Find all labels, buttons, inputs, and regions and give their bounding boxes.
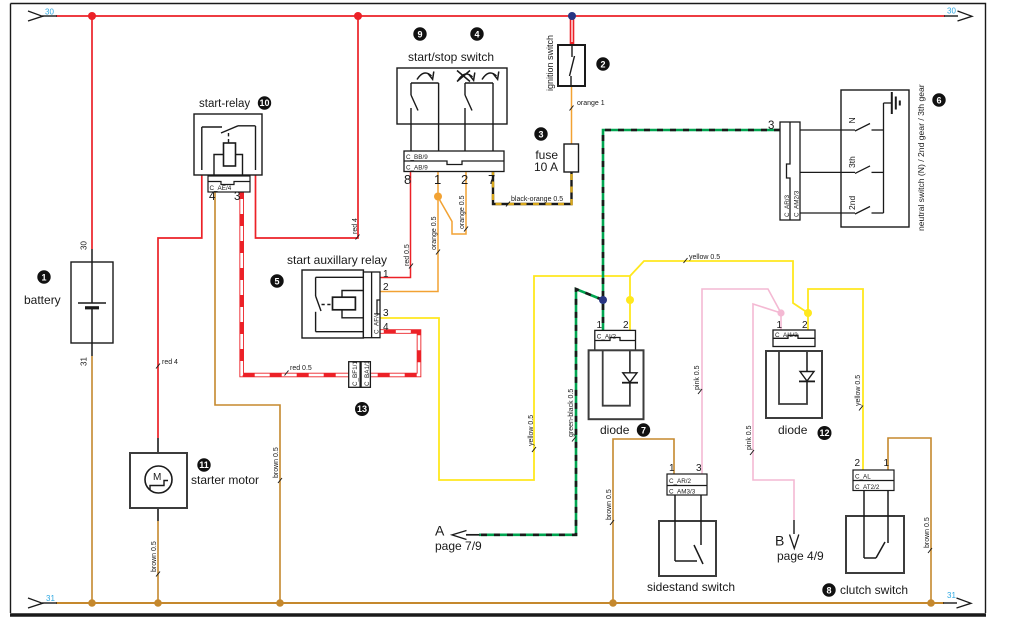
svg-text:2: 2 <box>623 320 629 331</box>
net 31 bus wire <box>42 602 957 604</box>
svg-text:C_AF/4: C_AF/4 <box>374 312 381 334</box>
svg-text:3th: 3th <box>847 156 857 168</box>
start auxillary relay 5 <box>302 270 363 338</box>
svg-text:2: 2 <box>461 172 468 187</box>
svg-text:red 4: red 4 <box>162 359 178 366</box>
svg-text:C_AR/3: C_AR/3 <box>784 194 791 217</box>
wire clutch pin1 to net31 (brown 0.5) <box>888 438 931 603</box>
svg-text:red 4: red 4 <box>352 218 359 234</box>
svg-text:13: 13 <box>357 404 367 414</box>
svg-text:1: 1 <box>777 320 783 331</box>
svg-text:brown 0.5: brown 0.5 <box>924 517 931 548</box>
wire yellow branch right <box>630 261 808 330</box>
node A page reference <box>435 523 482 553</box>
svg-text:yellow 0.5: yellow 0.5 <box>528 415 535 446</box>
wire neutral switch to diode7 pin1 (green-black 0.5) <box>603 130 780 330</box>
svg-text:1: 1 <box>41 273 46 283</box>
svg-text:yellow 0.5: yellow 0.5 <box>689 254 720 261</box>
neutral switch connector C_AR/3 C_AM2/3 <box>780 122 800 220</box>
svg-text:brown 0.5: brown 0.5 <box>151 541 158 572</box>
svg-text:1: 1 <box>669 463 675 474</box>
badge 1 <box>37 270 50 283</box>
junction orange <box>434 193 442 201</box>
start-relay connector C_AE/4 <box>208 176 250 192</box>
svg-text:yellow 0.5: yellow 0.5 <box>855 375 862 406</box>
svg-text:3: 3 <box>383 308 389 319</box>
wire green-black branch to page A <box>479 289 603 535</box>
wire battery to net30 (red) <box>91 16 93 249</box>
label pink 0.5 <box>746 425 754 455</box>
diode 7 body <box>589 350 644 419</box>
svg-text:sidestand switch: sidestand switch <box>647 580 735 594</box>
clutch switch connector C_AL C_AT2/2 <box>853 470 894 491</box>
wire battery stub top (black) <box>91 249 93 303</box>
wire start-relay pin4 to net31 (brown 0.5) <box>215 192 280 603</box>
svg-text:1: 1 <box>383 269 389 280</box>
connector 13 C_BF1/1 C_BA1/1 <box>349 362 371 388</box>
start/stop connector C_BB/9 C_AB/9 <box>404 151 504 172</box>
svg-text:C_AM2/3: C_AM2/3 <box>794 190 801 217</box>
ground symbol <box>884 92 900 114</box>
svg-text:31: 31 <box>80 357 89 366</box>
svg-text:N: N <box>847 117 857 123</box>
clutch switch 8 <box>846 491 904 574</box>
svg-text:1: 1 <box>434 172 441 187</box>
junction yellow diode7 <box>626 296 634 304</box>
svg-text:4: 4 <box>209 191 216 203</box>
badge 2 <box>596 57 609 70</box>
wire net30 to ignition switch (thick red) <box>570 16 575 45</box>
svg-text:A: A <box>435 523 445 539</box>
svg-text:C_AI/2: C_AI/2 <box>597 334 617 341</box>
junction red battery <box>88 12 96 20</box>
svg-text:M: M <box>153 472 161 483</box>
badge 6 <box>932 93 945 106</box>
label brown 0.5 <box>606 489 614 525</box>
badge 9 <box>413 27 426 40</box>
arrow arc switch 1 <box>417 72 434 80</box>
label orange 0.5 <box>431 216 440 254</box>
svg-text:C_AL: C_AL <box>855 474 871 481</box>
svg-text:ignition switch: ignition switch <box>545 35 555 91</box>
wire pink branch to page B <box>753 304 794 520</box>
neutral switch 6 <box>800 90 909 227</box>
junction pink diode12 <box>777 309 784 316</box>
svg-text:orange 1: orange 1 <box>577 100 605 107</box>
svg-text:B: B <box>775 533 784 549</box>
svg-text:C_AI1/2: C_AI1/2 <box>775 332 798 339</box>
svg-text:red 0.5: red 0.5 <box>290 365 312 372</box>
node B page reference <box>775 520 824 563</box>
label brown 0.5 <box>273 447 282 483</box>
badge 3 <box>534 127 547 140</box>
arrow 31 right <box>957 598 972 608</box>
start/stop switch 9 4 <box>397 68 507 151</box>
sidestand switch 8 <box>659 495 716 576</box>
wire sidestand pin1 to net31 (brown 0.5) <box>613 439 674 603</box>
svg-text:2: 2 <box>600 60 605 70</box>
svg-text:10 A: 10 A <box>534 160 558 174</box>
svg-text:orange 0.5: orange 0.5 <box>431 216 438 250</box>
start-relay 10 <box>194 114 262 175</box>
junction net31 sidestand <box>609 599 617 607</box>
label orange 1 <box>570 100 605 111</box>
svg-text:page 4/9: page 4/9 <box>777 549 824 563</box>
badge 4 <box>470 27 483 40</box>
arrow arc switch 3 <box>482 72 499 80</box>
svg-text:2nd: 2nd <box>847 196 857 210</box>
label red 0.5 <box>285 365 312 376</box>
svg-text:4: 4 <box>474 30 479 40</box>
svg-text:3: 3 <box>234 191 240 203</box>
svg-text:2: 2 <box>383 282 389 293</box>
svg-text:battery: battery <box>24 293 61 307</box>
svg-text:C_AB/9: C_AB/9 <box>406 165 428 172</box>
wire battery to net31 (brown) <box>91 356 93 603</box>
junction net31 starter motor <box>154 599 162 607</box>
svg-text:11: 11 <box>199 460 209 470</box>
svg-text:start-relay: start-relay <box>199 98 250 110</box>
wire start/stop pin1 to aux relay pin2 (orange 0.5) <box>380 171 438 292</box>
junction red start-relay <box>354 12 362 20</box>
ignition switch 2 <box>558 45 585 86</box>
label pink 0.5 <box>694 365 702 394</box>
svg-text:start auxillary relay: start auxillary relay <box>287 253 387 267</box>
wire aux relay pin3 yellow net <box>380 276 630 480</box>
svg-text:5: 5 <box>274 277 279 287</box>
arrow arc crossed switch 2 <box>457 71 475 82</box>
svg-text:brown 0.5: brown 0.5 <box>273 447 280 478</box>
label red 4 <box>156 359 178 369</box>
svg-text:9: 9 <box>417 30 422 40</box>
svg-text:7: 7 <box>488 172 495 187</box>
label yellow 0.5 <box>528 415 536 452</box>
junction net31 battery <box>88 599 96 607</box>
svg-text:8: 8 <box>404 172 411 187</box>
label green-black 0.5 <box>568 389 576 442</box>
label yellow 0.5 <box>855 375 863 411</box>
svg-text:red 0.5: red 0.5 <box>404 244 411 266</box>
svg-text:C_AR/2: C_AR/2 <box>669 478 692 485</box>
svg-text:page 7/9: page 7/9 <box>435 539 482 553</box>
label black-orange 0.5 <box>506 196 563 207</box>
svg-text:1: 1 <box>597 320 603 331</box>
wire sidestand pin3 to diode12 pin1 (pink 0.5) <box>702 289 781 474</box>
arrow 30 left <box>28 11 43 21</box>
svg-text:brown 0.5: brown 0.5 <box>606 489 613 520</box>
wire start-relay pin3 to aux relay pin4 (thick red 0.5 dashed) <box>242 192 419 375</box>
diode 12 body <box>766 351 822 418</box>
svg-text:diode: diode <box>600 423 630 437</box>
svg-text:1: 1 <box>884 458 890 469</box>
diode 12 <box>773 330 815 347</box>
wire starter motor bottom stub (black) <box>157 492 159 521</box>
svg-text:C_AT2/2: C_AT2/2 <box>855 484 880 491</box>
svg-text:start/stop switch: start/stop switch <box>408 50 494 64</box>
wire net30 to start-relay right (red 4) <box>256 16 359 238</box>
badge 5 <box>270 274 283 287</box>
junction net31 relay coil <box>276 599 284 607</box>
svg-text:8: 8 <box>826 586 831 596</box>
net 30 bus wire <box>42 15 958 17</box>
svg-text:C_BB/9: C_BB/9 <box>406 154 428 161</box>
label red 0.5 <box>404 244 413 268</box>
svg-text:31: 31 <box>947 591 956 600</box>
arrow 31 left <box>28 598 43 608</box>
svg-text:C_AM3/3: C_AM3/3 <box>669 489 696 496</box>
svg-text:2: 2 <box>802 320 808 331</box>
svg-text:starter motor: starter motor <box>191 473 259 487</box>
svg-text:30: 30 <box>45 8 54 17</box>
label red 4 <box>352 218 360 240</box>
wire starter motor to net31 (brown 0.5) <box>157 521 159 603</box>
badge 10 <box>258 96 271 109</box>
sidestand switch connector C_AR/2 C_AM3/3 <box>667 474 707 495</box>
badge 13 <box>355 402 369 416</box>
svg-text:2: 2 <box>855 458 861 469</box>
badge 8 <box>822 583 835 596</box>
svg-text:C_BA1/1: C_BA1/1 <box>364 360 371 386</box>
wire start-relay left to starter motor (red 4) <box>158 170 202 438</box>
wire jog start/stop pin2 (orange 0.5) <box>438 171 466 234</box>
svg-text:C_BF1/1: C_BF1/1 <box>352 361 359 386</box>
junction navy diode7 <box>599 296 607 304</box>
wire start-relay right inner (red) <box>255 170 257 176</box>
svg-text:4: 4 <box>383 322 389 333</box>
label yellow 0.5 <box>684 254 721 263</box>
svg-text:30: 30 <box>80 241 89 250</box>
svg-text:neutral switch (N) / 2nd gear: neutral switch (N) / 2nd gear / 3th gear <box>916 84 926 231</box>
svg-text:3: 3 <box>696 463 702 474</box>
wire yellow branch clutch <box>808 289 863 470</box>
arrow 30 right <box>958 11 973 21</box>
battery 1 <box>71 262 113 343</box>
svg-text:3: 3 <box>538 130 543 140</box>
diode 7 <box>595 330 636 350</box>
wire starter motor stub (black) <box>157 438 159 467</box>
junction net31 clutch <box>927 599 935 607</box>
svg-text:6: 6 <box>936 96 941 106</box>
svg-text:7: 7 <box>641 426 646 436</box>
label brown 0.5 <box>151 541 160 576</box>
label orange 0.5 <box>459 195 468 231</box>
badge 12 <box>818 426 832 440</box>
wire ignition to fuse (orange 1) <box>571 86 573 144</box>
aux relay connector C_AF/4 <box>363 272 380 338</box>
svg-text:3: 3 <box>768 120 774 132</box>
label brown 0.5 <box>924 517 932 553</box>
svg-text:pink 0.5: pink 0.5 <box>746 425 753 450</box>
svg-text:12: 12 <box>819 428 829 438</box>
junction navy ignition <box>568 12 576 20</box>
wire battery stub bottom (black) <box>91 308 93 356</box>
svg-text:diode: diode <box>778 423 808 437</box>
svg-text:31: 31 <box>46 594 55 603</box>
svg-text:pink 0.5: pink 0.5 <box>694 365 701 390</box>
svg-text:black-orange 0.5: black-orange 0.5 <box>511 196 563 203</box>
wire fuse element (black) <box>571 144 573 172</box>
svg-text:orange 0.5: orange 0.5 <box>459 195 466 229</box>
svg-text:green-black 0.5: green-black 0.5 <box>568 389 575 437</box>
svg-text:10: 10 <box>259 98 269 108</box>
wire start/stop pin8 to aux relay pin1 (red 0.5) <box>380 171 411 278</box>
svg-text:clutch switch: clutch switch <box>840 583 908 597</box>
junction yellow diode12 <box>804 309 812 317</box>
svg-text:30: 30 <box>947 7 956 16</box>
starter motor 11 <box>130 453 187 508</box>
wire fuse to start/stop pin7 (black-orange 0.5) <box>493 171 572 204</box>
fuse 3 <box>564 144 579 172</box>
badge 11 <box>197 458 210 471</box>
badge 7 <box>637 423 650 436</box>
